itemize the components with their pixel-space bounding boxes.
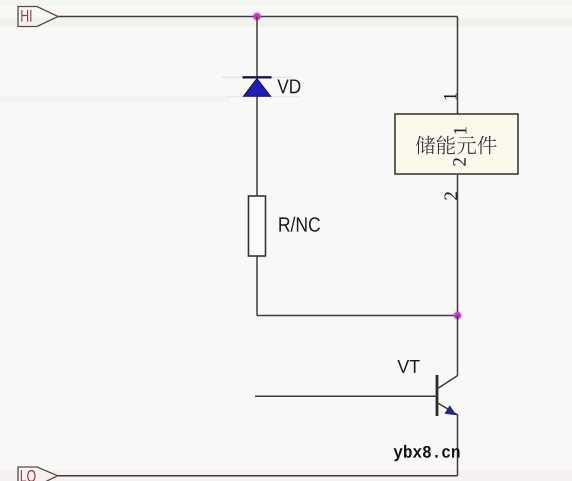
wire emitter down [457,415,459,476]
wire bottom horizontal to LO [58,475,458,477]
transistor VT [437,375,458,416]
port HI [18,7,58,27]
wire resistor bottom down [256,256,258,316]
diode VD [222,77,300,97]
junction node B [453,311,463,321]
storage element box U1 储能元件 [395,114,518,174]
port LO [18,467,58,481]
wire pin 2 down to node B [457,174,459,316]
label R/NC [279,217,320,232]
label VD [277,79,300,93]
pin 1 name [454,127,467,134]
pin 2 name [453,158,466,166]
wire top horizontal from HI to right corner [58,16,458,18]
label VT [397,360,419,373]
pin 1 number [444,93,457,100]
watermark ybx8.cn [394,445,460,461]
wire node A down to diode VD [256,17,258,78]
wire horizontal to node B [257,315,458,317]
pin 2 number [444,192,457,200]
junction node A [252,12,262,22]
resistor R/NC [249,196,266,256]
wire right vertical down to pin 1 [457,17,459,115]
wire base of VT [255,395,437,397]
wire diode to resistor [256,97,258,197]
wire node B down to collector of VT [457,316,459,376]
